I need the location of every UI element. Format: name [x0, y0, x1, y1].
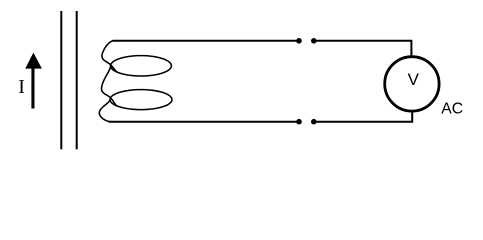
wire bottom left (coil to node) [109, 121, 300, 123]
node dot bottom left [296, 119, 302, 125]
wire bottom right (node to voltmeter) [314, 110, 412, 122]
wire top right (node to voltmeter) [314, 41, 412, 57]
wire top left (coil to node) [113, 40, 300, 42]
svg-text:V: V [408, 70, 420, 89]
current direction arrow [25, 53, 42, 109]
conductor bar left [60, 11, 62, 149]
node dot top left [296, 38, 302, 44]
node dot bottom right [311, 119, 317, 125]
svg-text:I: I [18, 76, 25, 98]
svg-text:AC: AC [441, 101, 463, 118]
node dot top right [311, 38, 317, 44]
coil L1 (search coil, 2 turns) [99, 41, 172, 122]
voltmeter M1 body [385, 57, 439, 111]
conductor bar right [76, 11, 78, 149]
